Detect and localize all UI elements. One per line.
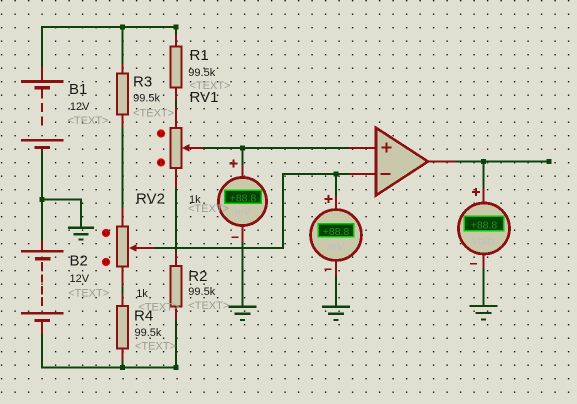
svg-text:<TEXT>: <TEXT>	[188, 300, 229, 312]
svg-text:<TEXT>: <TEXT>	[68, 115, 109, 127]
svg-text:<TEXT>: <TEXT>	[188, 203, 229, 215]
svg-text:99.5k: 99.5k	[188, 286, 215, 298]
svg-text:12V: 12V	[70, 273, 90, 285]
svg-text:1k: 1k	[136, 288, 148, 300]
svg-text:Volts: Volts	[471, 236, 496, 248]
svg-text:<TEXT>: <TEXT>	[190, 80, 231, 92]
svg-text:R2: R2	[188, 268, 207, 285]
svg-text:<TEXT>: <TEXT>	[135, 341, 176, 353]
svg-text:99.5k: 99.5k	[135, 327, 162, 339]
svg-text:mV: mV	[235, 207, 251, 218]
svg-text:+88.8: +88.8	[471, 219, 498, 231]
svg-text:mV: mV	[329, 242, 345, 253]
svg-text:R1: R1	[190, 47, 209, 64]
svg-text:<TEXT>: <TEXT>	[138, 302, 179, 314]
svg-text:99.5k: 99.5k	[188, 67, 215, 79]
svg-text:12V: 12V	[70, 101, 90, 113]
svg-text:+88.8: +88.8	[230, 192, 257, 204]
svg-text:99.5k: 99.5k	[133, 92, 160, 104]
svg-text:RV2: RV2	[136, 190, 165, 207]
svg-text:<TEXT>: <TEXT>	[68, 287, 109, 299]
svg-text:B2: B2	[70, 252, 88, 269]
svg-text:<TEXT>: <TEXT>	[133, 107, 174, 119]
svg-text:R3: R3	[133, 73, 152, 90]
svg-text:+88.8: +88.8	[323, 226, 350, 238]
svg-text:B1: B1	[69, 81, 87, 98]
